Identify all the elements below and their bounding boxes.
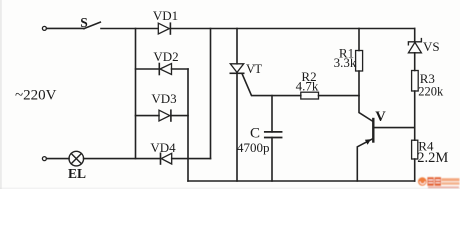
svg-text:V: V xyxy=(375,109,386,125)
lamp EL xyxy=(69,151,84,166)
thyristor VT xyxy=(230,64,243,73)
terminal bottom-left xyxy=(42,157,46,161)
capacitor C lead top xyxy=(271,96,273,132)
resistor R2 xyxy=(301,92,319,99)
gate wire xyxy=(242,74,301,96)
svg-text:~220V: ~220V xyxy=(15,88,57,104)
node vertical x188 xyxy=(187,69,189,181)
thyristor cathode wire down xyxy=(236,73,238,181)
wire lamp to VD4 xyxy=(84,158,160,160)
resistor R1 xyxy=(356,51,363,72)
resistor R1 lead top xyxy=(358,29,360,51)
capacitor C lead bottom xyxy=(271,138,273,182)
svg-text:220k: 220k xyxy=(418,85,444,99)
transistor base wire xyxy=(374,127,415,129)
svg-text:VD2: VD2 xyxy=(153,49,178,64)
node vertical x211 xyxy=(210,29,212,159)
emitter arrow xyxy=(365,139,371,145)
svg-text:VT: VT xyxy=(246,62,262,76)
wire VD3 row right xyxy=(171,115,188,117)
watermark logo xyxy=(418,177,460,188)
wire VD3 row left xyxy=(136,115,160,117)
resistor R4 xyxy=(412,140,418,159)
wire R4 to bottom corner xyxy=(414,159,416,181)
wire R3 to R4 xyxy=(414,91,416,140)
transistor V bar xyxy=(372,119,374,142)
diode VD3 xyxy=(159,110,170,121)
svg-text:2.2M: 2.2M xyxy=(417,150,448,166)
wire VS to R3 xyxy=(414,53,416,71)
svg-text:3.3k: 3.3k xyxy=(334,55,357,70)
diode VD2 xyxy=(158,64,160,75)
wire R2 to R1 junction xyxy=(319,95,360,97)
svg-text:S: S xyxy=(80,15,88,30)
bottom rail xyxy=(188,180,415,182)
svg-text:VS: VS xyxy=(423,39,440,54)
wire top rail left to switch xyxy=(47,27,84,29)
wire VD1 to top-right corner xyxy=(170,28,414,30)
terminal top-left xyxy=(42,26,46,30)
zener VS xyxy=(408,39,421,45)
diode VD4 xyxy=(160,153,162,164)
wire R1 bottom to collector xyxy=(359,71,373,121)
wire VD2 row left xyxy=(136,68,159,70)
transistor emitter xyxy=(357,139,372,181)
svg-text:4.7k: 4.7k xyxy=(296,79,319,94)
wire VD2 row right xyxy=(172,68,189,70)
svg-text:VD4: VD4 xyxy=(150,140,176,155)
wire terminal to lamp xyxy=(47,158,69,160)
svg-text:EL: EL xyxy=(68,166,86,181)
switch S blade xyxy=(84,22,100,28)
svg-text:VD3: VD3 xyxy=(151,91,176,106)
top right corner down xyxy=(414,29,416,42)
wire VD4 to corner up xyxy=(172,158,211,160)
capacitor C xyxy=(265,132,282,138)
diode VD1 xyxy=(158,23,169,34)
resistor R3 xyxy=(412,71,419,92)
svg-text:VD1: VD1 xyxy=(153,8,178,23)
wire switch to VD1 xyxy=(101,28,158,30)
svg-text:4700p: 4700p xyxy=(237,140,270,155)
thyristor VT anode line xyxy=(236,29,238,64)
node left branch vertical xyxy=(135,29,137,159)
